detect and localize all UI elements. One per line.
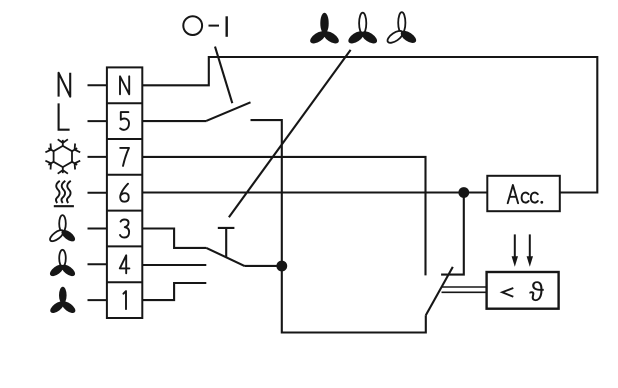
selector fan symbol 1-speed [386, 12, 419, 45]
wire 4 to selector contact [142, 264, 206, 266]
wire from node B down to thermostat contact [441, 193, 464, 275]
wire 7: cooling line to thermostat contact [142, 157, 425, 276]
terminal N label [120, 76, 129, 94]
terminal 7 label [120, 148, 129, 166]
Acc. label [508, 185, 538, 203]
wire 3 to selector contact [142, 229, 206, 248]
wire from S2 contact down to node A and bottom to thermostat [251, 120, 426, 332]
label N (neutral) [59, 73, 71, 97]
thermostat switch blade [426, 267, 453, 315]
label L (line) [59, 103, 70, 129]
fan speed-3 symbol (row 1) [48, 287, 77, 315]
terminal 3 label [120, 220, 129, 238]
selector link line from fan symbols [229, 50, 351, 217]
temperature falling arrows [514, 234, 516, 258]
thermostat mechanical link (double line) [442, 287, 487, 292]
terminal 6 label [120, 184, 129, 202]
fan speed-2 symbol (row 4) [48, 250, 77, 278]
O-I on/off symbol [183, 16, 226, 37]
wire N: terminal N up and across top to Acc [142, 57, 597, 193]
terminal block X1 [107, 67, 142, 318]
thermostat box < theta [487, 272, 559, 309]
selector fan symbol 3-speed [308, 13, 341, 46]
heating symbol (row 6) [56, 181, 71, 203]
junction node A [276, 261, 287, 272]
snowflake / cooling symbol (row 7) [54, 146, 72, 167]
junction node B [458, 187, 469, 198]
wire L/5 stub [142, 120, 206, 122]
wire 1 to selector contact [142, 283, 206, 300]
fan selector blade (on contact 3) [206, 248, 244, 266]
wire 6: heating line to Acc [142, 191, 487, 193]
theta symbol [529, 281, 543, 301]
fan speed-1 symbol (row 3) [48, 215, 77, 243]
terminal 5 label [120, 112, 129, 130]
selector fan symbol 2-speed [346, 13, 379, 46]
accessory box Acc. [487, 176, 560, 211]
switch S1 blade (O-I) [215, 47, 232, 104]
left stubs to terminals [88, 85, 107, 300]
less-than sign [502, 288, 513, 297]
terminal 4 label [120, 255, 130, 273]
selector common wire to node A [244, 265, 281, 267]
selector actuator T [218, 228, 235, 258]
terminal 1 label [123, 291, 126, 309]
switch S2 blade (open) [207, 102, 251, 121]
